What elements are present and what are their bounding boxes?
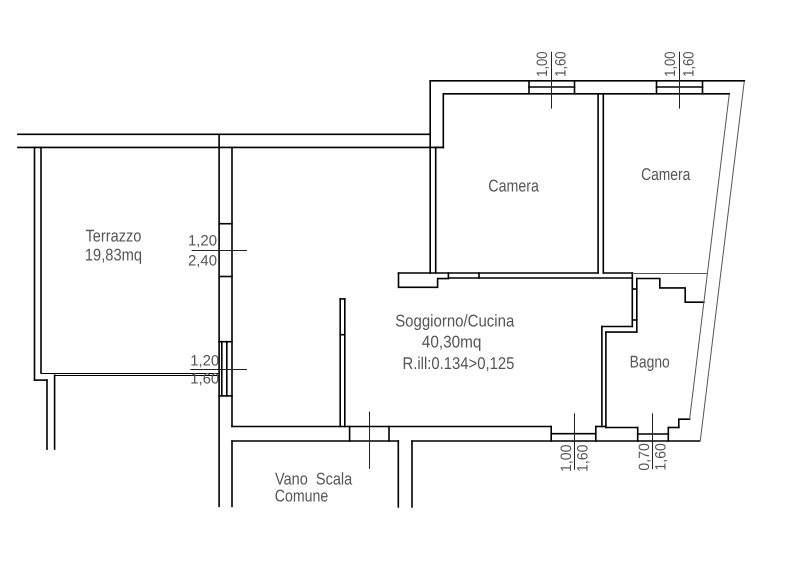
window W2 left edge: [656, 81, 658, 94]
svg-text:40,30mq: 40,30mq: [422, 333, 482, 352]
svg-text:1,00: 1,00: [558, 445, 575, 473]
wire terrazzo bottom wall bottom line: [55, 375, 220, 377]
window W5 bagno right edge: [667, 428, 669, 442]
node terrazzo door tick top: [219, 223, 232, 225]
node bagno door tick top: [632, 288, 637, 290]
window W1 right edge: [574, 81, 576, 94]
svg-text:0,70: 0,70: [636, 443, 653, 471]
svg-text:R.ill:0.134>0,125: R.ill:0.134>0,125: [403, 354, 515, 373]
node stub wall mid tick: [340, 334, 345, 336]
svg-text:Soggiorno/Cucina: Soggiorno/Cucina: [395, 312, 515, 331]
wire camera top wall outer: [430, 80, 744, 82]
wire bagno bottom-right step: [679, 419, 690, 427]
wire top wall outer line: [18, 133, 430, 135]
dimension line terrazzo door: [192, 250, 247, 252]
dimension line soggiorno window: [574, 413, 576, 470]
wire bagno left wall outer: [601, 327, 603, 427]
wire lower-left wall inner: [54, 375, 56, 449]
svg-text:Bagno: Bagno: [630, 352, 670, 371]
dimension line window W2: [679, 52, 681, 109]
dimension line window W1: [551, 52, 553, 109]
wire lower-left wall outer: [46, 380, 48, 449]
wire camera divider wall right line: [602, 94, 604, 273]
window W5 bagno middle line: [638, 433, 669, 435]
svg-text:Comune: Comune: [275, 487, 329, 506]
wire terrazzo bottom wall top line: [41, 373, 219, 375]
window W4 soggiorno left edge: [550, 427, 552, 442]
wire camera1 left inner corner: [436, 146, 444, 148]
svg-text:1,60: 1,60: [681, 51, 698, 77]
svg-text:2,40: 2,40: [188, 253, 217, 270]
door box right edge: [388, 427, 390, 442]
wire bagno top-left inner: [606, 331, 637, 333]
svg-text:1,20: 1,20: [188, 233, 217, 250]
wire bagno bottom wall top line left: [606, 427, 638, 429]
node stub wall top tick: [340, 298, 345, 300]
wire terrazzo right wall outer: [218, 134, 220, 506]
wire terrazzo right wall inner upper: [231, 147, 233, 426]
node camera wall tick 2: [478, 273, 480, 278]
svg-text:1,20: 1,20: [190, 353, 219, 370]
svg-text:1,00: 1,00: [662, 51, 679, 77]
wire bagno bottom wall top line right: [668, 427, 679, 429]
wire terrazzo left jog: [35, 379, 48, 381]
wire camera1 left wall inner upper: [442, 94, 444, 148]
wire camera bottom wall top line left: [399, 272, 599, 274]
window W4 soggiorno right edge: [595, 427, 597, 442]
dimension line bagno window: [652, 413, 654, 469]
wire vano scala top wall left: [232, 440, 398, 442]
wire outer slanted wall: [700, 81, 744, 441]
svg-text:Camera: Camera: [488, 177, 539, 196]
wire vano scala left wall inner: [231, 441, 233, 506]
wire inner slanted wall: [690, 95, 730, 419]
dimension line vano scala door: [369, 412, 371, 469]
wire terrazzo window pane left: [221, 342, 223, 396]
wire camera1 left wall inner lower: [435, 147, 437, 273]
svg-text:1,60: 1,60: [552, 51, 569, 77]
node bagno door tick bottom: [632, 319, 637, 321]
wire soggiorno bottom wall top line right: [596, 426, 606, 428]
wire bagno wall right line: [636, 279, 638, 333]
wire camera1 left wall outer upper: [429, 81, 431, 273]
wire camera divider wall left line: [597, 94, 599, 273]
wire camera top wall inner: [443, 93, 729, 95]
node camera wall tick 1: [447, 273, 449, 278]
svg-text:19,83mq: 19,83mq: [85, 245, 142, 264]
node terrazzo window tick top: [219, 341, 232, 343]
wire terrazzo window pane right: [226, 342, 228, 396]
window W1 middle line: [529, 86, 575, 88]
svg-text:1,60: 1,60: [190, 370, 219, 387]
wire camera bottom wall top line right: [603, 272, 632, 274]
wire bagno top-left outer: [602, 326, 632, 328]
svg-text:1,60: 1,60: [652, 443, 669, 471]
wire vano scala wall vertical 2: [411, 441, 413, 507]
door box left edge: [349, 427, 351, 442]
wire terrazzo left wall inner: [40, 147, 42, 373]
wire soggiorno bottom wall top line: [232, 426, 551, 428]
wire vano scala top wall right: [412, 440, 700, 442]
wire interior stub wall left: [339, 299, 341, 427]
svg-text:1,60: 1,60: [575, 445, 592, 473]
svg-text:Terrazzo: Terrazzo: [86, 227, 142, 246]
window W2 right edge: [702, 81, 704, 94]
wire bagno wall left line: [631, 273, 633, 327]
dimension line terrazzo window: [190, 369, 247, 371]
svg-text:1,00: 1,00: [534, 51, 551, 77]
svg-text:Camera: Camera: [641, 165, 691, 184]
wire thin line camera2 to slant: [632, 273, 707, 275]
wire camera bottom wall bottom line: [448, 277, 632, 279]
window W5 bagno left edge: [637, 428, 639, 442]
pillar at soggiorno/camera corner: [399, 273, 449, 287]
wire terrazzo left wall outer: [34, 147, 36, 380]
wire interior stub wall right: [344, 299, 346, 427]
node terrazzo door tick bottom: [219, 276, 232, 278]
window W2 middle line: [657, 86, 703, 88]
window W1 left edge: [528, 81, 530, 94]
window W4 soggiorno middle line: [551, 433, 596, 435]
wire vano scala wall vertical 1: [397, 441, 399, 507]
wire bagno top step 1: [637, 279, 704, 303]
wire bagno left wall inner: [605, 332, 607, 427]
node terrazzo window tick bottom: [219, 395, 232, 397]
wire top wall inner line: [18, 146, 443, 148]
